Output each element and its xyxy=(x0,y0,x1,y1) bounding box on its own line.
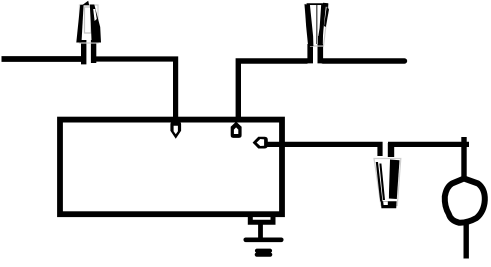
pin P3 (points left, inside box) xyxy=(253,137,268,149)
component X3 sketched cone body xyxy=(374,159,401,209)
lamp M1 hand-drawn circle xyxy=(445,179,485,223)
ground stem xyxy=(258,224,263,239)
junction vertical to lamp M1 xyxy=(461,137,466,178)
pin P1 (points down into box) xyxy=(170,122,181,139)
ground bar xyxy=(246,237,281,242)
wire W4 below lamp xyxy=(464,224,469,259)
box U1 (module outline) xyxy=(60,120,282,215)
wire W2 right segment xyxy=(323,58,405,63)
component X2 terminal legs xyxy=(310,44,320,63)
ground tab bracket xyxy=(250,215,273,222)
component X2 sketched body xyxy=(305,3,330,46)
wire W3 right segment from cone to junction xyxy=(388,144,469,157)
component X1 terminal legs xyxy=(84,40,94,64)
ground lower dash xyxy=(257,251,270,255)
wire W3 from pin P3 through box edge to cone xyxy=(265,144,380,156)
wire W1 right segment with corner down to box xyxy=(96,59,176,122)
wire W2 left segment with corner down to box xyxy=(238,61,307,122)
wire W1 left horizontal xyxy=(2,56,85,62)
pin P2 (points up, inside box) xyxy=(231,122,242,138)
component X1 sketched body xyxy=(76,1,101,43)
